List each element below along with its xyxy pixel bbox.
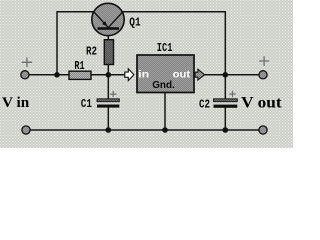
svg-text:R2: R2 [86,45,97,59]
svg-text:in: in [138,69,149,81]
svg-text:R1: R1 [74,59,84,73]
svg-text:C2: C2 [199,98,210,112]
svg-text:C1: C1 [81,97,92,111]
svg-text:Q1: Q1 [129,16,140,30]
svg-text:IC1: IC1 [157,41,173,55]
svg-text:V out: V out [241,95,282,112]
svg-text:Gnd.: Gnd. [152,79,175,91]
svg-text:out: out [173,69,191,81]
svg-text:V in: V in [2,95,30,111]
